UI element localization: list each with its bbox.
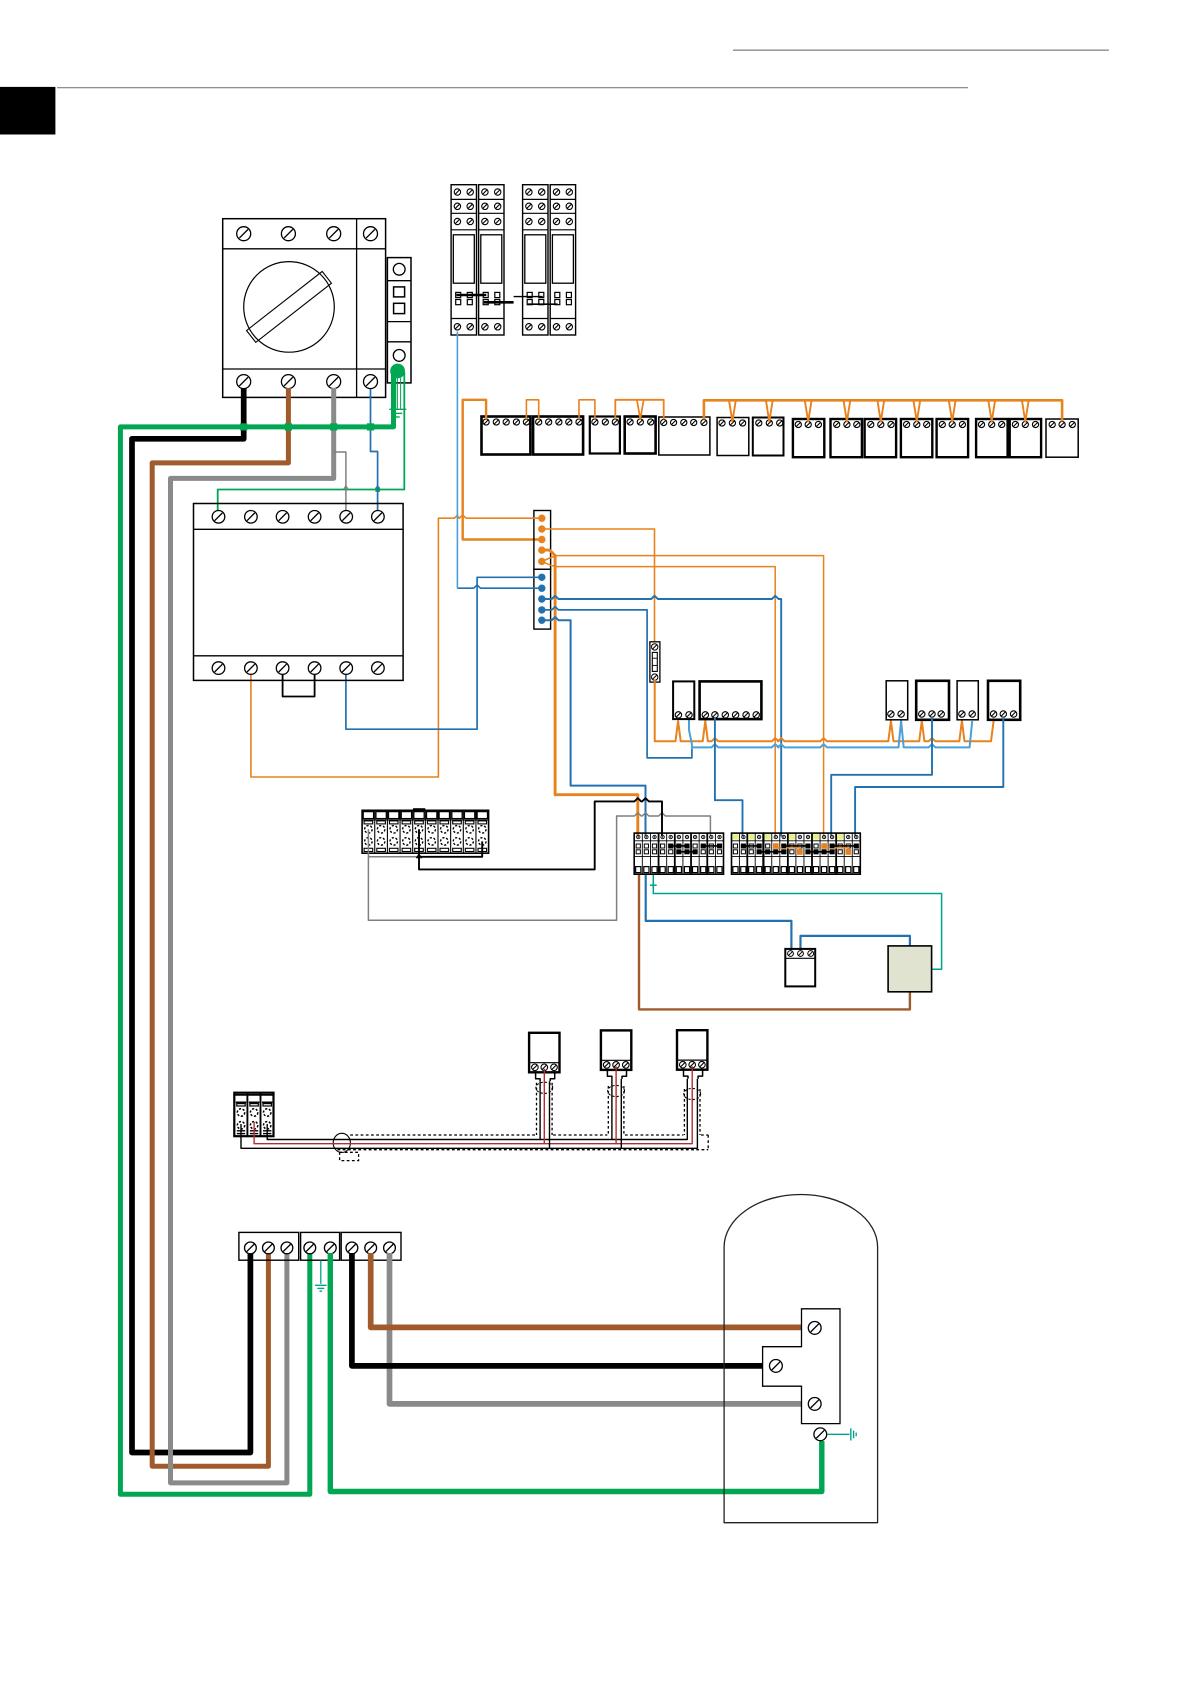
pilot box PC4 bbox=[988, 681, 1020, 720]
output box B15 bbox=[1046, 419, 1078, 457]
wire orange bus from fuse to pilot boxes bbox=[655, 680, 994, 741]
node L5 orange dot bbox=[538, 558, 545, 565]
bottom terminal strip B (PE) bbox=[301, 1232, 340, 1260]
output box B1 bbox=[482, 417, 531, 455]
wire N4dot to blue bus (blue) bbox=[542, 607, 692, 758]
beige controller box bbox=[888, 946, 932, 992]
hot water tank outline bbox=[724, 1195, 878, 1523]
wire black sensor bus lower bbox=[241, 1079, 697, 1149]
output box B10 bbox=[865, 419, 897, 457]
jumper link K2 lower bbox=[484, 301, 514, 304]
pilot box PB bbox=[700, 681, 762, 719]
crossing marks on green PE line bbox=[344, 486, 380, 490]
wire black strip C1 to tank connector middle bbox=[352, 1253, 769, 1366]
wire brown strip C2 to tank connector top bbox=[371, 1253, 808, 1327]
wire PE to contactor A1 (thin green) bbox=[218, 372, 405, 513]
wire L5dot to term-group2 pin6 (orange) bbox=[542, 561, 775, 836]
pilot box PC1 bbox=[886, 681, 908, 720]
wire gray strip C3 to tank connector bottom bbox=[390, 1253, 808, 1404]
contactor K-main bbox=[194, 504, 404, 681]
header rule top right bbox=[733, 49, 1109, 51]
relay module K4 bbox=[550, 185, 575, 335]
X2 jumper bottom cells4-7 bbox=[757, 850, 786, 855]
node N5 blue dot bbox=[538, 617, 545, 624]
wire N1dot to contactor A5 (blue) bbox=[346, 577, 542, 729]
sensor S1 conduit tube bbox=[536, 1072, 555, 1135]
bottom terminal strip C bbox=[341, 1232, 401, 1260]
wire N5dot to term-group1 pin2 (blue) bbox=[542, 617, 646, 837]
wire L5dot to term-group2 pin12 (orange) bbox=[542, 556, 824, 837]
sensor S2 conduit tube bbox=[607, 1070, 626, 1135]
output box B5 bbox=[659, 417, 710, 455]
sensor terminal block X3 (3 cells) bbox=[234, 1093, 273, 1137]
output box B13 bbox=[976, 419, 1008, 457]
wire blue bus (neutral) to pilot boxes bbox=[689, 717, 972, 747]
output box B6 bbox=[717, 418, 749, 456]
X2 jumper bottom cells10-13 bbox=[806, 850, 835, 855]
wire orange chain B3-B4-B5 bbox=[615, 400, 663, 420]
output box B12 bbox=[937, 419, 969, 457]
pilot box PA bbox=[673, 681, 694, 719]
wire blue X1 cell2 to relay R pin1 bbox=[646, 875, 792, 950]
node L1 orange dot bbox=[538, 515, 545, 522]
page corner black marker bbox=[0, 87, 55, 134]
header rule left bbox=[57, 87, 968, 89]
wire L1 black: Q1 to bottom strip A1 bbox=[132, 388, 250, 1453]
output box B9 bbox=[831, 419, 862, 457]
wire green strip B2 to tank ground bbox=[330, 1253, 822, 1492]
small relay R bbox=[785, 949, 815, 987]
X1 jumper bottom cells6-8 bbox=[677, 850, 698, 855]
auxiliary contact block on Q1 bbox=[387, 258, 411, 383]
wire L1dot to contactor coil A2 (orange) bbox=[251, 515, 542, 777]
X2 jumper top cells2-4 bbox=[741, 844, 761, 849]
wire PC2 pin2 to term-group2 pin13 (blue) bbox=[831, 717, 932, 837]
pilot box PC3 bbox=[957, 681, 978, 720]
node L3 orange dot bbox=[538, 536, 545, 543]
output box B4 bbox=[625, 417, 656, 454]
output box B14 bbox=[1010, 419, 1041, 457]
wire L2dot to fuse top (orange) bbox=[542, 529, 655, 642]
relay module K3 bbox=[523, 185, 548, 335]
ground symbol below PE dot bbox=[389, 378, 406, 417]
wire L2 brown: Q1 to bottom strip A2 bbox=[152, 388, 288, 1466]
output box B8 bbox=[793, 419, 824, 457]
distribution strip lower (N) bbox=[534, 569, 551, 629]
X2 jumper top cells7-10 bbox=[782, 844, 811, 849]
green junction nodes on trunk bbox=[240, 423, 374, 430]
sensor S3 bbox=[677, 1030, 707, 1070]
green junction at blue crossing bbox=[375, 487, 380, 492]
wire PE green trunk (dot to bottom strip B1) bbox=[120, 372, 393, 1494]
terminal block X2b (12 cells) bbox=[764, 833, 861, 874]
tank connector plate bbox=[763, 1309, 840, 1424]
conduit dashed outline bbox=[333, 1133, 708, 1160]
output box B11 bbox=[901, 419, 932, 457]
jumper link K2-K3 bbox=[514, 296, 543, 298]
output box B7 bbox=[753, 418, 784, 456]
node L4 orange dot bbox=[538, 546, 545, 553]
sensor S2 bbox=[601, 1030, 631, 1070]
terminal block X0 (10 cells) bbox=[362, 810, 489, 854]
terminal block X2a (4 cells) bbox=[732, 833, 764, 874]
wire PC4 pin2 to term-group2 pin16 (blue) bbox=[855, 717, 1003, 837]
sensor S3 conduit tube bbox=[684, 1070, 703, 1135]
wire orange chain B5-B15 trunk bbox=[704, 400, 1062, 421]
wire N2dot to relay K1 coil (blue) bbox=[457, 332, 538, 589]
node N2 blue dot bbox=[538, 585, 545, 592]
tank ground symbol bbox=[828, 1428, 857, 1440]
wire blue relay R pin2 to beige box top bbox=[801, 936, 910, 950]
wire brown X1 cell1 to beige box bottom bbox=[639, 875, 910, 1009]
wire gray X0 cell1 to group1 pin10 bbox=[368, 813, 710, 921]
X2 orange jumper cell6-cell9 bbox=[773, 843, 803, 855]
output box B3 bbox=[590, 417, 620, 454]
jumper link K1-K2 upper bbox=[457, 294, 487, 297]
relay module K1 bbox=[451, 185, 476, 335]
node N3 blue dot bbox=[538, 595, 545, 602]
bottom terminal strip A bbox=[239, 1232, 299, 1260]
wire orange feed chain to distribution dot 3 bbox=[463, 400, 539, 540]
wire L3 gray: Q1 to bottom strip A3 bbox=[171, 388, 334, 1483]
X1 jumper top cells9-11 bbox=[701, 844, 722, 849]
ground symbol below strip B bbox=[315, 1261, 327, 1292]
wire N3dot to term-group2 pin7 (blue) bbox=[542, 596, 781, 837]
sensor S1 bbox=[529, 1033, 559, 1073]
PE node green dot bbox=[390, 364, 405, 379]
wire red sensor bus middle bbox=[254, 1066, 692, 1144]
main disconnect switch Q1 bbox=[223, 219, 386, 398]
X1 jumper top cells5-7 bbox=[668, 844, 689, 849]
wire PB pin2 to term-group2 pin2 (blue) bbox=[715, 717, 743, 837]
fuse F1 bbox=[650, 642, 660, 682]
terminal block X1 (11 cells) bbox=[634, 833, 723, 874]
distribution strip upper (L) bbox=[534, 511, 551, 570]
tank ground screw bbox=[814, 1428, 827, 1441]
output box B2 bbox=[533, 417, 583, 455]
wire black X0 cell5/cell10 to group1 pin4 bbox=[416, 798, 662, 869]
X2 jumper top cells13-16 bbox=[830, 844, 859, 849]
black jumper contactor T3-T4 bbox=[283, 674, 315, 697]
jumper link K3-K4 lower bbox=[528, 303, 558, 305]
wire black sensor bus upper bbox=[267, 1079, 687, 1140]
node L2 orange dot bbox=[538, 525, 545, 532]
X2 orange jumper cell12-cell15 bbox=[821, 843, 851, 855]
wire L4dot to term-group1 pin1 (orange) bbox=[542, 550, 638, 836]
wire blue: Q1 aux pole to contactor T6 bbox=[371, 389, 378, 513]
wire orange chain B2-B3 bbox=[579, 400, 595, 419]
pilot box PC2 bbox=[916, 681, 949, 720]
wire orange chain B1-B2 bbox=[526, 400, 538, 419]
wire gray tap: L3 to contactor A5 bbox=[335, 452, 346, 513]
node N4 blue dot bbox=[538, 606, 545, 613]
wire teal X1 cell3 to beige box right bbox=[650, 875, 942, 969]
node N1 blue dot bbox=[538, 574, 545, 581]
relay module K2 bbox=[479, 185, 504, 335]
